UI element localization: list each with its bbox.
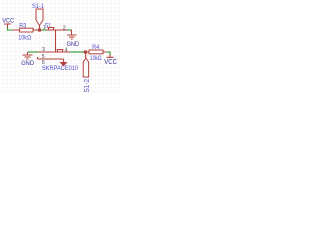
svg-text:SKRPACE010: SKRPACE010 xyxy=(42,65,78,72)
wire ground to pin3 xyxy=(28,51,39,53)
wire S1 pin2 to GND xyxy=(67,29,72,31)
power VCC top-left xyxy=(2,18,14,28)
power VCC bottom-right xyxy=(104,55,117,66)
wire VCC to R3 xyxy=(8,28,14,31)
wire pin4 to R4 junction xyxy=(70,51,84,53)
switch S1 contact 1 xyxy=(43,22,67,31)
wire node to lower contact xyxy=(55,30,57,52)
arrow terminator down xyxy=(60,59,68,67)
junction node A xyxy=(38,28,42,32)
svg-text:GND: GND xyxy=(67,41,80,48)
svg-text:1: 1 xyxy=(43,25,46,31)
svg-text:S1-2: S1-2 xyxy=(84,79,91,93)
switch bracket pins 5,6 row xyxy=(38,54,64,66)
wire R4 to VCC xyxy=(107,52,110,56)
svg-text:10kΩ: 10kΩ xyxy=(90,55,102,62)
resistor R4 xyxy=(87,44,107,62)
svg-text:VCC: VCC xyxy=(104,59,117,66)
sheet grid background xyxy=(0,0,120,93)
resistor R3 xyxy=(13,23,40,42)
wire node A to S1 pin1 xyxy=(41,29,46,31)
junction node B xyxy=(84,50,88,54)
svg-text:2: 2 xyxy=(63,26,66,32)
svg-text:GND: GND xyxy=(21,60,34,67)
part number SKRPACE010 xyxy=(42,65,78,72)
port S1-2 xyxy=(83,52,91,93)
port S1-1 xyxy=(32,3,44,30)
svg-text:R3: R3 xyxy=(19,23,26,30)
switch S1 contact 2 (pins 3,4) xyxy=(39,47,71,53)
ground bottom-left xyxy=(21,52,34,67)
ground top-right xyxy=(67,30,80,49)
svg-text:R4: R4 xyxy=(92,44,99,51)
svg-text:10kΩ: 10kΩ xyxy=(18,35,31,42)
